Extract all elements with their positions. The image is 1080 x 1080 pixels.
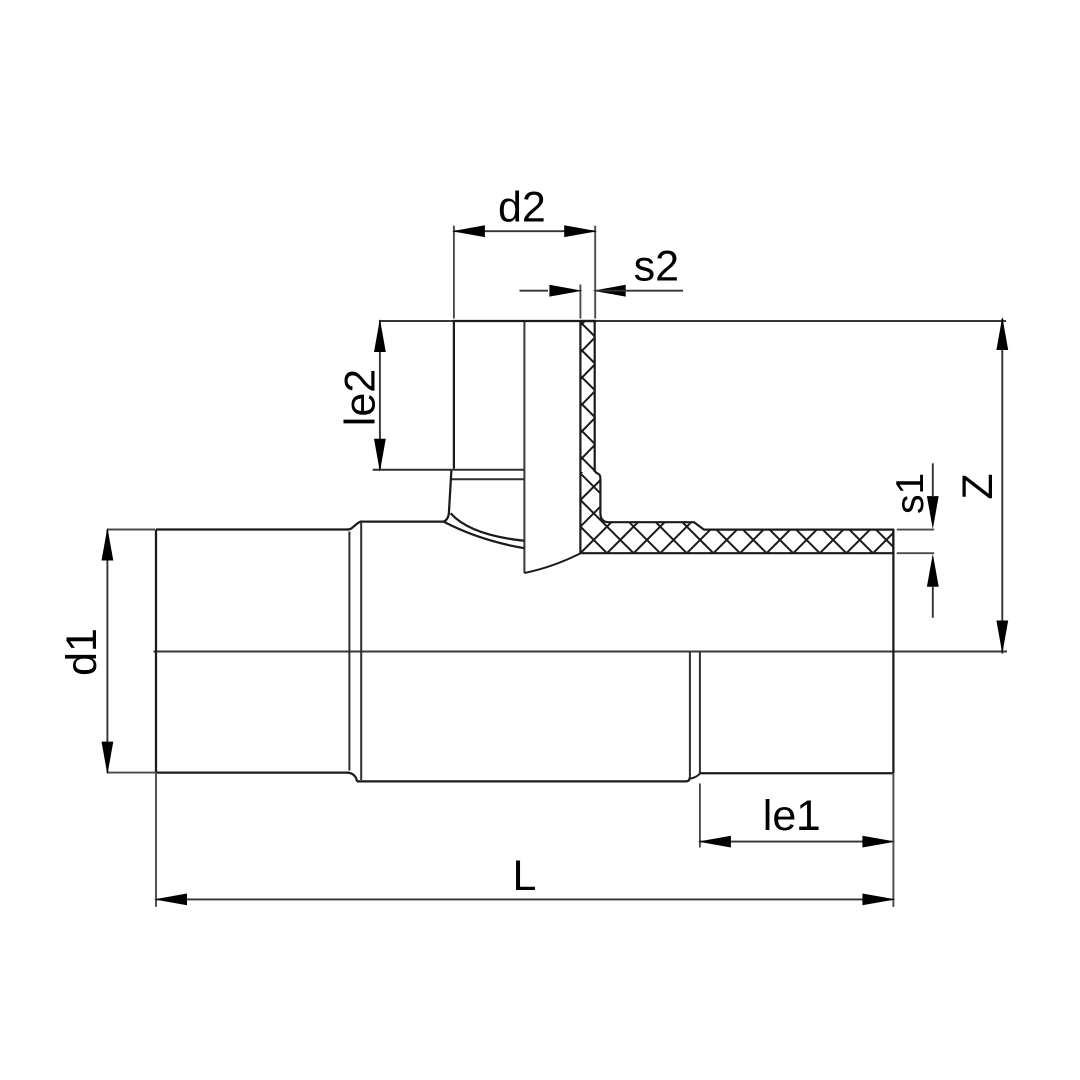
branch neck slant and corner into body top <box>444 470 452 521</box>
svg-text:d2: d2 <box>498 184 546 232</box>
dimension s1 extension lines <box>897 530 935 554</box>
section wall outline (branch wall + body wall) <box>580 321 893 553</box>
svg-text:d1: d1 <box>58 628 106 676</box>
dimension s2 label <box>634 243 679 291</box>
svg-text:le1: le1 <box>763 792 820 840</box>
dimension d2 label <box>498 184 546 232</box>
svg-text:Z: Z <box>954 473 1002 499</box>
svg-text:le2: le2 <box>337 369 385 426</box>
left pipe outline <box>156 530 349 773</box>
dimension Z label <box>954 473 1002 499</box>
branch top edge line with extensions <box>380 320 1006 322</box>
main body bottom edge <box>357 777 690 782</box>
dimension s2 extension line <box>579 285 581 319</box>
horizontal pipe centerline <box>154 651 1008 653</box>
dimension d2 line and arrows <box>452 225 597 237</box>
dimension d1 line and arrows <box>102 528 114 775</box>
branch centerline / section boundary <box>523 321 525 573</box>
right body-to-pipe fillet <box>691 773 700 778</box>
right pipe bottom edge <box>700 772 894 774</box>
dimension L extension lines <box>156 773 893 907</box>
dimension le1 label <box>763 792 820 840</box>
right end face <box>892 530 894 774</box>
branch socket step edge lines <box>373 470 525 480</box>
dimension le2 line and arrows <box>374 319 386 472</box>
dimension d1 label <box>58 628 106 676</box>
bore saddle curve <box>524 553 580 573</box>
dimension L line and arrows <box>154 894 895 906</box>
svg-text:s1: s1 <box>889 473 932 514</box>
dimension Z line and arrows <box>996 317 1008 654</box>
branch outer fillet curve <box>451 513 525 541</box>
branch inner fillet curve <box>444 522 525 548</box>
dimension le1 extension line <box>699 784 701 848</box>
main body left face edge lines <box>349 523 361 780</box>
left pipe to body transition chamfers <box>348 522 362 782</box>
cross-hatching of section wall <box>555 0 900 899</box>
dimension d2 extension lines <box>454 226 595 319</box>
dimension s1 line and arrows <box>927 463 939 618</box>
dimension le1 line and arrows <box>698 836 896 848</box>
dimension L label <box>513 852 537 900</box>
svg-text:s2: s2 <box>634 243 679 291</box>
dimension d1 extension lines <box>107 530 155 773</box>
right body face edge line <box>689 652 691 777</box>
right pipe shoulder line <box>699 652 701 773</box>
dimension s2 line and arrows <box>520 285 684 297</box>
dimension s1 label <box>889 473 932 514</box>
svg-text:L: L <box>513 852 537 900</box>
dimension le2 label <box>337 369 385 426</box>
main body top edge <box>360 520 444 522</box>
branch outer left wall <box>453 321 455 469</box>
